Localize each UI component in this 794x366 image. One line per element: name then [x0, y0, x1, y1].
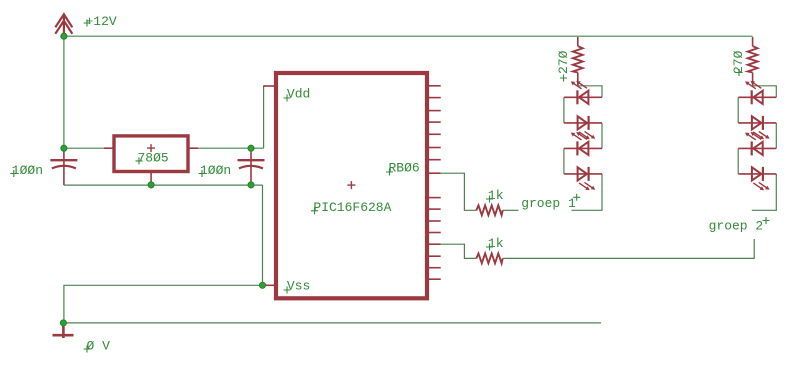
svg-text:78Ø5: 78Ø5	[138, 150, 169, 165]
svg-text:groep 2: groep 2	[709, 219, 764, 234]
svg-text:27Ø: 27Ø	[556, 50, 571, 74]
svg-text:+12V: +12V	[86, 14, 117, 29]
svg-text:1k: 1k	[488, 236, 504, 251]
svg-text:PIC16F628A: PIC16F628A	[313, 200, 391, 215]
svg-text:1k: 1k	[488, 188, 504, 203]
svg-text:Ø V: Ø V	[87, 338, 111, 353]
svg-text:Vdd: Vdd	[287, 87, 310, 102]
svg-text:Vss: Vss	[287, 278, 310, 293]
svg-text:groep 1: groep 1	[521, 196, 576, 211]
svg-text:RBØ6: RBØ6	[389, 161, 420, 176]
svg-text:1ØØn: 1ØØn	[200, 163, 231, 178]
svg-text:1ØØn: 1ØØn	[12, 163, 43, 178]
